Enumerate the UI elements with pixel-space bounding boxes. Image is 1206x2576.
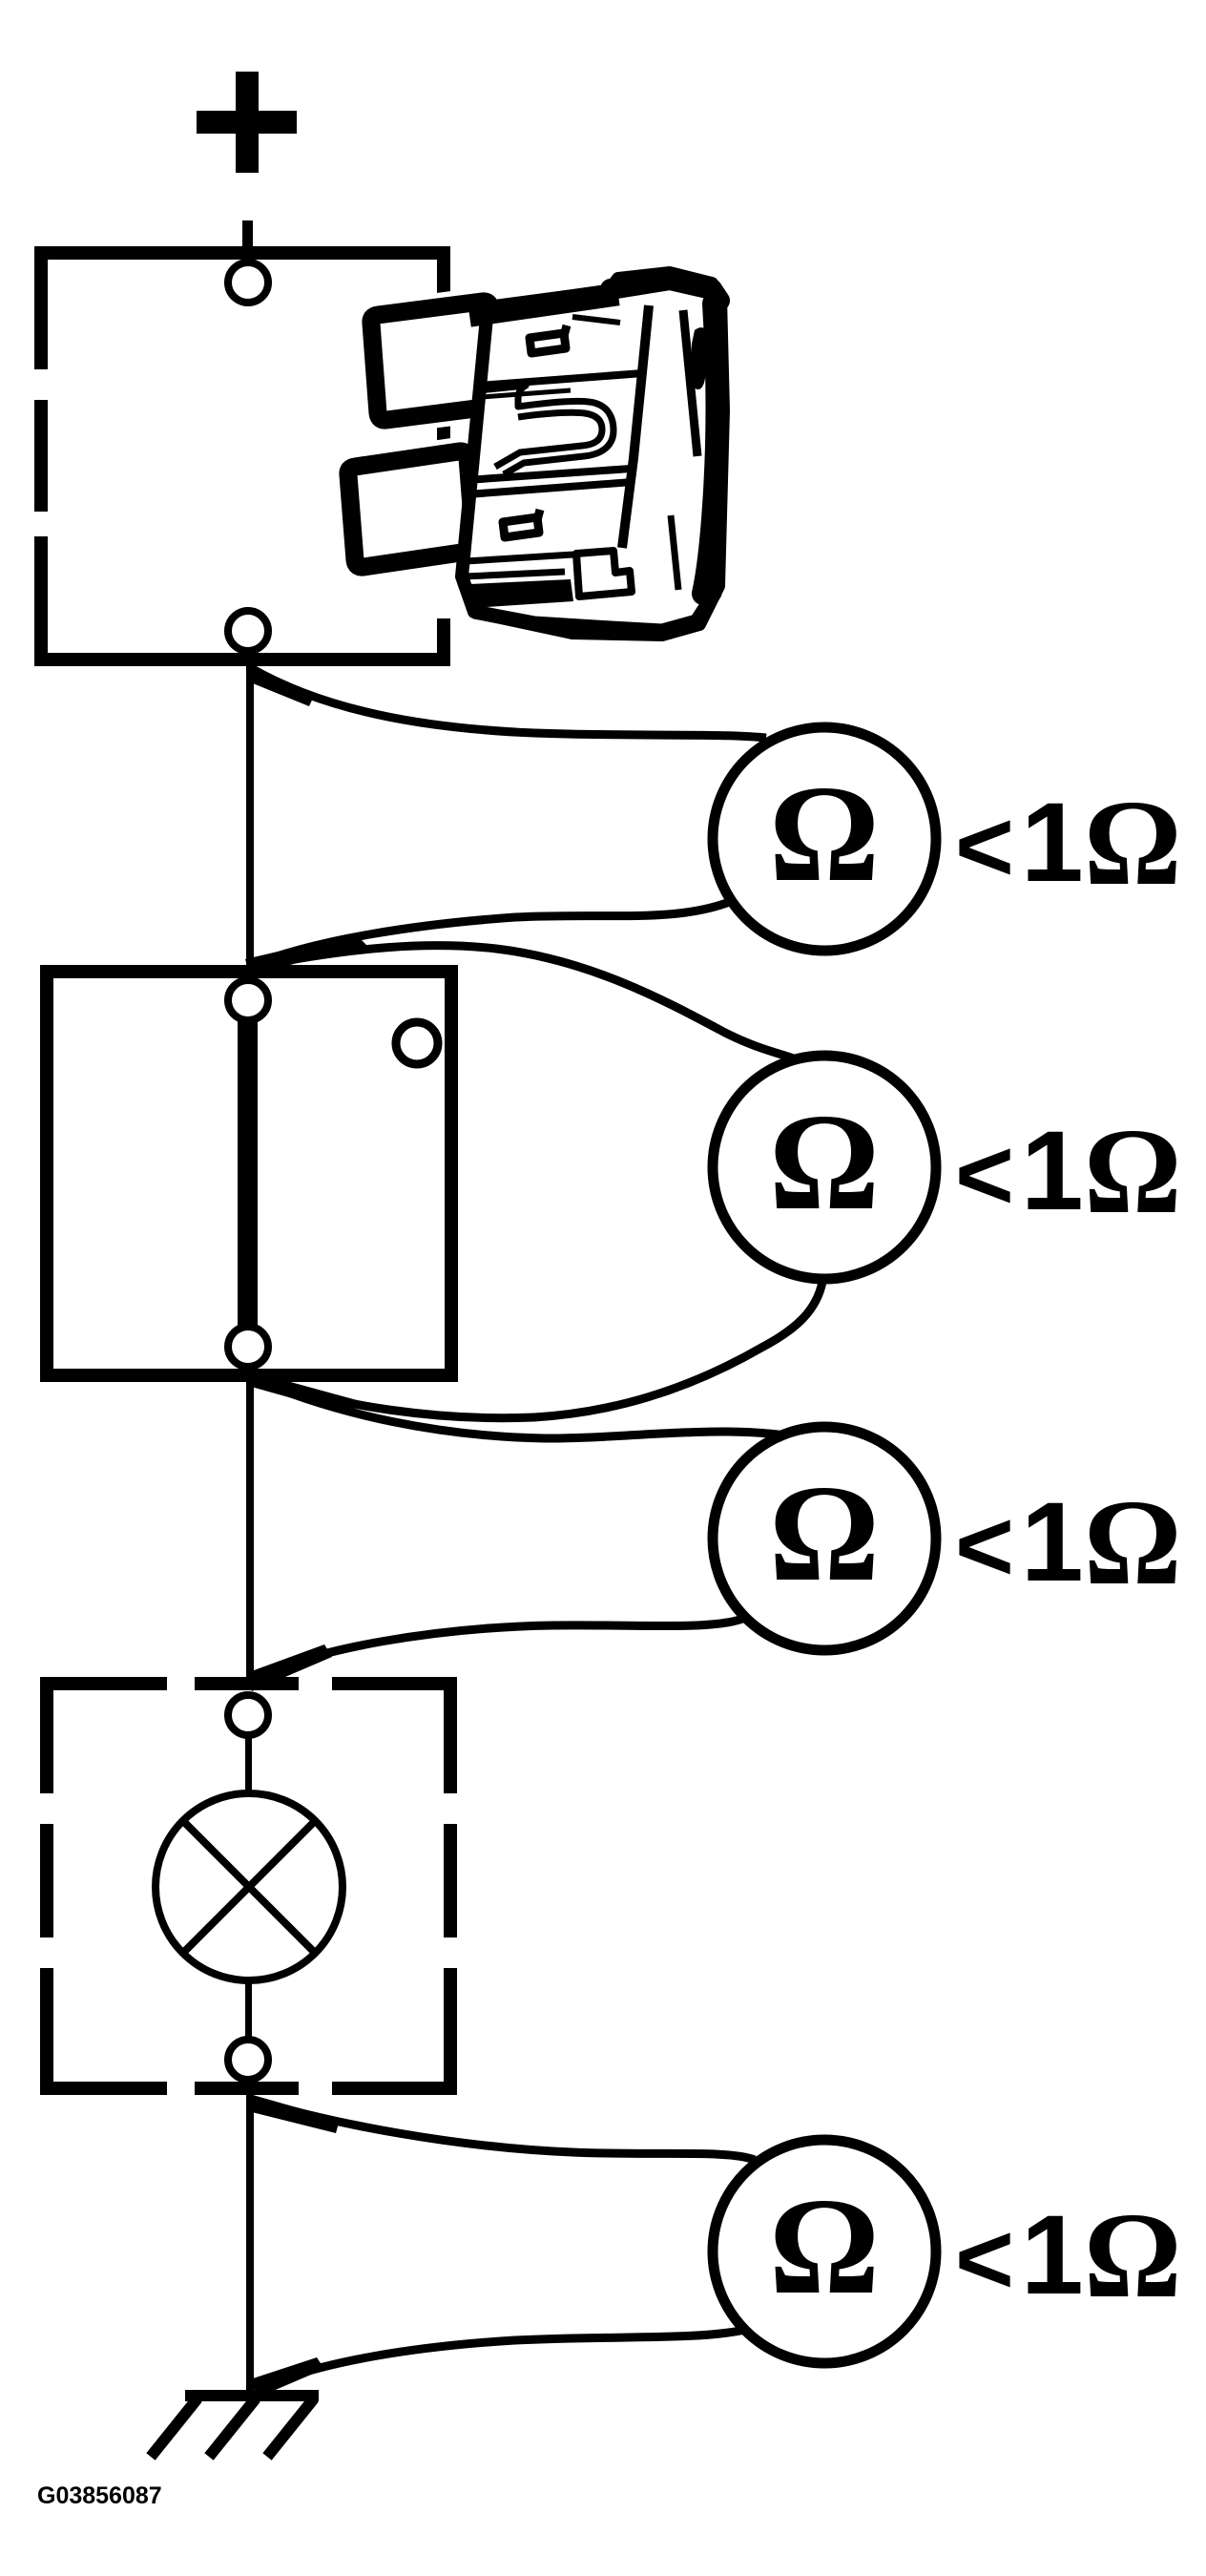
fuse side lower slit (671, 515, 678, 590)
lamp terminal bottom (228, 2040, 268, 2080)
fuse upper mark (530, 333, 566, 353)
svg-text:<1Ω: <1Ω (955, 1103, 1182, 1239)
ohmmeter 2 (713, 1056, 936, 1279)
fuse side chamfer edge (683, 310, 697, 456)
wire switch bottom to ohmmeter 3 top lead (248, 1376, 807, 1439)
fuse bottom lines (466, 555, 573, 561)
fuse body silhouette (462, 273, 723, 635)
junction blob at lamp box top (246, 1644, 332, 1691)
lamp internal leads (245, 1735, 252, 1796)
wire ohmmeter 4 bottom lead to ground (255, 2330, 745, 2391)
fuse box terminal bottom (228, 611, 268, 651)
junction blob at ground (250, 2357, 324, 2398)
battery positive symbol (197, 72, 297, 173)
switch box (47, 972, 451, 1375)
ground symbol (151, 2396, 319, 2457)
fuse box terminal top (228, 262, 268, 303)
switch contact bar (238, 1017, 258, 1329)
svg-text:G03856087: G03856087 (37, 2482, 162, 2509)
lamp box (dashed) (40, 1677, 457, 2095)
fuse bottom band (469, 579, 573, 608)
ohmmeter 3 (713, 1427, 936, 1650)
svg-text:Ω: Ω (769, 1457, 880, 1610)
svg-text:<1Ω: <1Ω (955, 775, 1182, 911)
fuse illustration (348, 273, 726, 641)
switch terminal bottom (228, 1327, 268, 1367)
wire stub from + to fuse box (242, 220, 253, 261)
ohmmeter 4 (713, 2140, 936, 2363)
wire ohmmeter 2 bottom lead (248, 1282, 822, 1418)
svg-text:Ω: Ω (769, 2170, 880, 2323)
fuse mid split lines (467, 469, 631, 480)
fuse lower mark (503, 517, 539, 537)
wire to ohmmeter 1 top lead (251, 668, 766, 738)
junction blob at switch top (245, 933, 366, 975)
svg-text:Ω: Ω (769, 758, 880, 911)
svg-text:<1Ω: <1Ω (955, 2188, 1182, 2323)
wire ohmmeter 1 bottom lead (248, 899, 737, 967)
lamp terminal top (228, 1695, 268, 1735)
fuse bottom edge band (474, 592, 716, 631)
fuse side slot (691, 327, 711, 389)
switch aux terminal (396, 1022, 438, 1064)
junction blob at lamp box bottom (246, 2093, 340, 2133)
ohmmeter 1 (713, 727, 936, 951)
fuse window top lines (478, 373, 643, 386)
fuse box (dashed holder box) (34, 246, 450, 666)
fuse top edge band (481, 296, 607, 314)
svg-text:Ω: Ω (769, 1086, 880, 1239)
wire lamp box to ground (246, 2095, 254, 2396)
fuse blade terminal lower (348, 451, 474, 567)
fuse right edge band (703, 304, 717, 594)
junction blob at fuse box bottom (246, 663, 315, 706)
switch terminal top (228, 980, 268, 1020)
fuse front/side edge (622, 305, 649, 548)
fuse blade terminal upper (371, 302, 497, 420)
lamp symbol (156, 1793, 343, 1980)
wire switch box to lamp box (246, 1382, 254, 1677)
wire lamp bottom to ohmmeter 4 top lead (250, 2099, 755, 2160)
wire switch top to ohmmeter 2 (249, 946, 803, 1062)
white halo behind fuse (348, 273, 726, 641)
fuse bottom right bracket (576, 551, 632, 597)
junction blob at switch bottom (245, 1370, 357, 1415)
wire ohmmeter 3 bottom lead to lamp box top (249, 1618, 745, 1681)
svg-text:<1Ω: <1Ω (955, 1475, 1182, 1610)
fuse top band lower edge (572, 317, 620, 323)
fuse element strip (479, 386, 613, 474)
wire fuse box to switch box (246, 666, 254, 970)
